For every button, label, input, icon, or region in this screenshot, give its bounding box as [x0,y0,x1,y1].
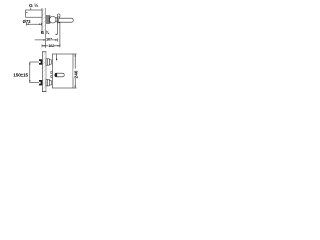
label G 3/4 [41,30,50,35]
left edge bumps [51,72,52,74]
installation box rect (lower right view) [52,54,73,88]
label G 1/2 top [29,2,38,9]
leader from G 1/2 label [30,8,32,11]
lever bar (upper view) [59,18,74,22]
label 150±15 [13,72,28,77]
extension line B [59,22,61,46]
bottom union socket behind wall [46,80,49,86]
svg-text:162: 162 [48,43,55,48]
bottom union nut (lower view) [39,80,42,85]
wall hatch (upper view) [42,8,46,33]
union nut ribbed block (upper view) [46,16,50,24]
valve body circle (upper view) [50,16,57,23]
dimension 246 vertical [74,54,76,88]
top union nut (lower view) [39,59,42,64]
top union socket behind wall [46,59,49,65]
extension stubs right view [73,53,77,55]
bottom union cap [49,81,51,85]
tick at extension A [56,33,58,35]
lever handle (lower right view) [55,73,64,77]
dimension 162 [42,45,60,47]
dimension 150±15 vertical [29,62,31,83]
top union cap [49,60,51,64]
extension line A [56,22,58,34]
small arrow on body left edge [26,12,28,14]
svg-text:G ¾: G ¾ [41,30,50,35]
escutcheon body rect (upper view) [26,10,42,17]
dimension 150±15 stubs [30,61,39,63]
svg-text:246: 246 [74,70,79,78]
svg-text:107: 107 [46,36,53,41]
dimension 107 [35,39,46,41]
label Ø73 [23,19,32,24]
neck (upper view) [56,18,58,22]
wall hatch (lower view) [42,52,46,92]
inner vertical line [56,54,58,60]
knob on top (upper view) [57,14,60,17]
svg-text:150±15: 150±15 [13,72,28,77]
spindle block (upper view) [58,17,60,23]
svg-text:Ø73: Ø73 [23,19,32,24]
extension line wall face [45,34,47,49]
dimension line Ø73 [27,23,42,25]
svg-text:G ½: G ½ [29,2,38,9]
label 246 rotated [74,70,79,78]
